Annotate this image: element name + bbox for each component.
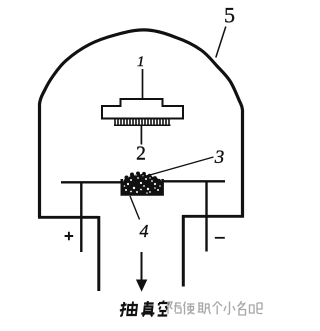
个 [213, 302, 223, 315]
便 [184, 302, 195, 315]
substrate holder (item 1) [102, 99, 183, 119]
baseplate left segment [61, 181, 121, 183]
evaporant material (item 3) [123, 172, 162, 194]
leader line 3 [141, 157, 214, 178]
抽 [119, 302, 127, 316]
leader line 5 [216, 27, 226, 58]
svg-text:1: 1 [137, 54, 144, 70]
vacuum pump arrow [141, 252, 143, 281]
base step right [183, 215, 245, 218]
svg-text:4: 4 [140, 221, 149, 241]
bell jar dome (item 5) [40, 30, 243, 218]
leader line 4 [130, 196, 140, 220]
electrode left (+) [80, 182, 82, 252]
小 [224, 302, 235, 315]
substrate hatched strip (item 2) [114, 120, 171, 126]
svg-text:3: 3 [214, 147, 225, 168]
pump port left wall [97, 216, 100, 291]
真 [141, 301, 156, 317]
evaporation boat (item 4) [122, 179, 163, 195]
minus symbol [215, 237, 225, 239]
名 [238, 301, 246, 315]
electrode right (-) [205, 181, 207, 252]
caption 抽真空 (hand-drawn strokes) [119, 301, 169, 317]
watermark 随便取个小名吧 (gray strokes) [168, 301, 263, 315]
随 [168, 302, 181, 314]
base step left [38, 216, 99, 219]
吧 [250, 303, 263, 314]
取 [198, 303, 211, 314]
pump port right wall [182, 215, 185, 287]
leader line 1 [142, 69, 144, 99]
baseplate right segment [163, 180, 225, 182]
leader line 2 [140, 126, 142, 145]
svg-text:5: 5 [224, 2, 235, 27]
plus symbol [65, 232, 74, 241]
空 [158, 301, 169, 316]
svg-text:2: 2 [136, 143, 146, 164]
